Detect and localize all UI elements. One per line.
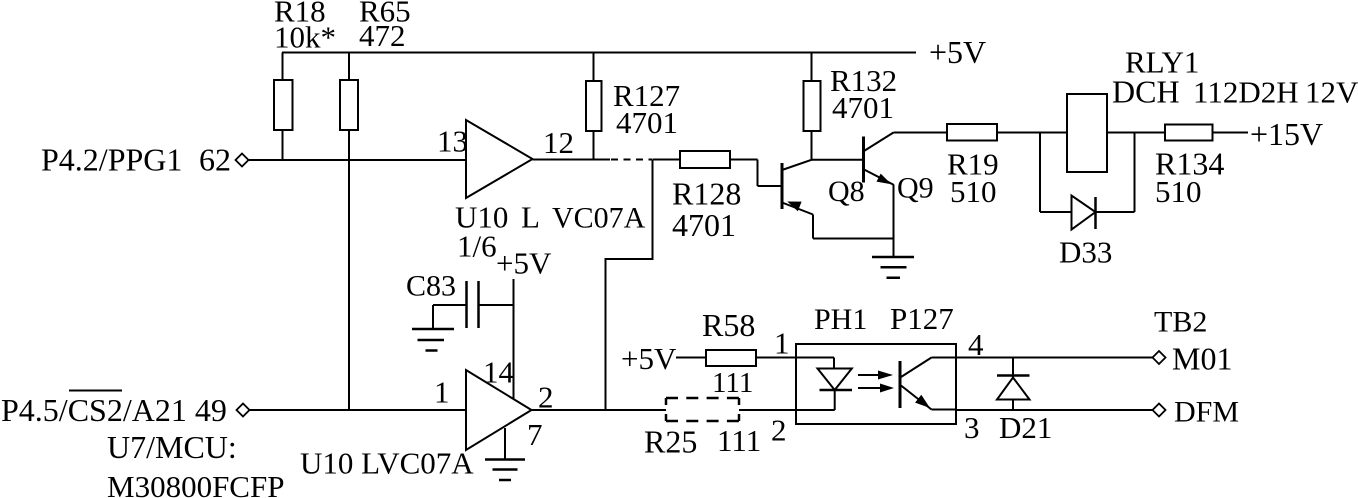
svg-text:+15V: +15V bbox=[1250, 116, 1323, 152]
svg-text:TB2: TB2 bbox=[1154, 306, 1207, 339]
svg-text:111: 111 bbox=[717, 423, 761, 458]
svg-text:2: 2 bbox=[771, 413, 787, 448]
svg-text:62: 62 bbox=[199, 142, 231, 178]
svg-text:510: 510 bbox=[950, 174, 997, 209]
svg-text:PH1: PH1 bbox=[814, 303, 867, 336]
svg-text:7: 7 bbox=[527, 417, 543, 452]
svg-text:P4.5/CS2/A21 49: P4.5/CS2/A21 49 bbox=[1, 392, 227, 428]
svg-text:510: 510 bbox=[1155, 174, 1202, 209]
svg-text:4701: 4701 bbox=[616, 105, 678, 140]
svg-text:472: 472 bbox=[359, 18, 406, 53]
svg-text:1/6: 1/6 bbox=[457, 229, 497, 264]
svg-text:R25: R25 bbox=[644, 424, 697, 460]
svg-text:U10 LVC07A: U10 LVC07A bbox=[300, 446, 474, 481]
svg-text:+5V: +5V bbox=[929, 34, 986, 70]
svg-text:P4.2/PPG1: P4.2/PPG1 bbox=[41, 142, 182, 178]
svg-text:Q8: Q8 bbox=[828, 175, 865, 208]
svg-text:13: 13 bbox=[437, 124, 468, 159]
svg-text:3: 3 bbox=[964, 410, 980, 445]
svg-text:Q9: Q9 bbox=[897, 172, 934, 205]
svg-text:12V: 12V bbox=[1305, 75, 1358, 110]
svg-text:12: 12 bbox=[543, 125, 574, 160]
svg-text:U7/MCU:: U7/MCU: bbox=[107, 429, 237, 465]
svg-text:DFM: DFM bbox=[1174, 396, 1239, 429]
svg-text:4701: 4701 bbox=[672, 207, 736, 243]
svg-text:P127: P127 bbox=[890, 301, 954, 336]
svg-text:1: 1 bbox=[434, 375, 450, 410]
svg-text:M01: M01 bbox=[1172, 341, 1232, 377]
svg-text:112D2H: 112D2H bbox=[1193, 75, 1299, 110]
svg-text:+5V: +5V bbox=[496, 246, 552, 281]
svg-text:M30800FCFP: M30800FCFP bbox=[107, 469, 284, 498]
svg-text:R58: R58 bbox=[702, 307, 755, 343]
svg-text:4: 4 bbox=[968, 327, 984, 362]
svg-text:4701: 4701 bbox=[832, 90, 894, 125]
svg-text:2: 2 bbox=[538, 380, 554, 415]
svg-text:D33: D33 bbox=[1059, 235, 1112, 270]
svg-text:14: 14 bbox=[483, 355, 515, 390]
svg-text:C83: C83 bbox=[406, 270, 456, 303]
svg-text:10k*: 10k* bbox=[274, 20, 336, 55]
svg-text:111: 111 bbox=[712, 367, 753, 399]
svg-text:D21: D21 bbox=[999, 410, 1052, 445]
svg-text:VC07A: VC07A bbox=[552, 202, 646, 235]
svg-text:+5V: +5V bbox=[621, 341, 677, 376]
svg-text:DCH: DCH bbox=[1112, 74, 1180, 110]
svg-text:L: L bbox=[521, 200, 540, 235]
svg-text:1: 1 bbox=[774, 326, 790, 361]
